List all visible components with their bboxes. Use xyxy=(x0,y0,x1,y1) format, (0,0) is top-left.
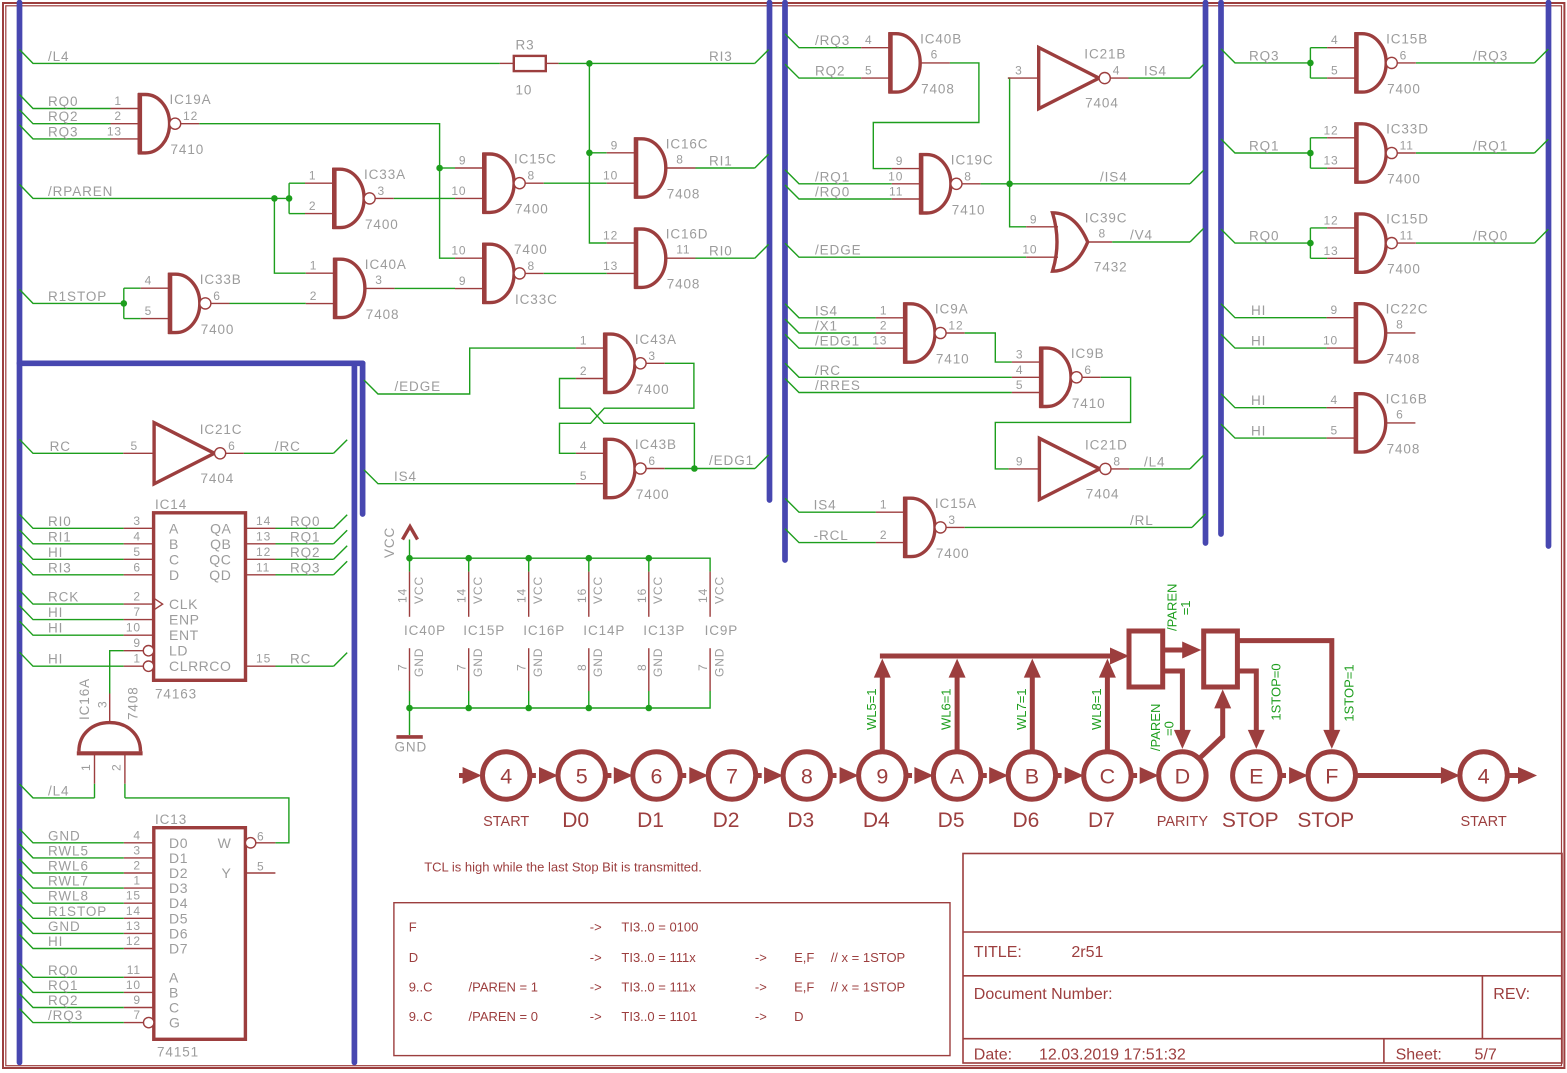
svg-text:GND: GND xyxy=(531,648,545,677)
and gate IC22C xyxy=(1323,301,1428,366)
svg-text:5: 5 xyxy=(576,764,588,788)
svg-text:1: 1 xyxy=(580,334,588,348)
svg-text:D0: D0 xyxy=(169,835,188,851)
IC IC14 74163 counter xyxy=(124,497,276,702)
svg-text:7: 7 xyxy=(396,663,410,671)
svg-text:REV:: REV: xyxy=(1493,986,1530,1003)
wire net RQ2 xyxy=(20,109,111,124)
label /PAREN=0 xyxy=(1148,704,1177,751)
svg-text:Sheet:: Sheet: xyxy=(1396,1047,1442,1064)
wire net RQ0 right xyxy=(1221,229,1310,244)
svg-text:4: 4 xyxy=(865,33,873,47)
wire net /RQ1 out xyxy=(1416,139,1535,154)
svg-text:PARITY: PARITY xyxy=(1157,814,1209,830)
svg-text:IC15D: IC15D xyxy=(1386,212,1429,227)
svg-text:/RL: /RL xyxy=(1130,513,1154,528)
svg-text:10: 10 xyxy=(603,169,618,183)
svg-text:3: 3 xyxy=(133,843,141,857)
wire net RQ1 right xyxy=(1221,139,1310,154)
svg-text:12: 12 xyxy=(256,545,271,559)
svg-text:2: 2 xyxy=(309,199,317,213)
wire net HI ic16b-1 xyxy=(1221,393,1327,408)
bus entry /RC xyxy=(334,440,348,454)
wire R1STOP fork to IC33B xyxy=(121,288,141,318)
wire net RC from IC14 xyxy=(276,652,334,667)
svg-text:1STOP=1: 1STOP=1 xyxy=(1341,664,1356,721)
svg-text:1: 1 xyxy=(114,94,122,108)
and gate IC16A (rotated) xyxy=(77,678,143,784)
svg-text:3: 3 xyxy=(1016,348,1024,362)
svg-text:CLR: CLR xyxy=(169,658,199,674)
svg-text:GND: GND xyxy=(712,648,726,677)
svg-text:->: -> xyxy=(590,1009,602,1024)
svg-text:RWL6: RWL6 xyxy=(48,859,89,874)
wire net /RPAREN xyxy=(20,184,290,202)
wire net RQ3 right xyxy=(1221,48,1310,63)
svg-text:->: -> xyxy=(755,950,767,965)
state transition arrow C xyxy=(1056,767,1084,784)
svg-text:2: 2 xyxy=(880,528,888,542)
svg-text:4: 4 xyxy=(1331,33,1339,47)
svg-text:/RRES: /RRES xyxy=(815,378,861,393)
bus left-block inner vertical short xyxy=(360,363,366,514)
svg-text:7408: 7408 xyxy=(667,277,701,292)
svg-text:HI: HI xyxy=(1251,303,1266,318)
svg-text:IC43A: IC43A xyxy=(635,332,677,347)
svg-text:7410: 7410 xyxy=(936,352,970,367)
svg-text:4: 4 xyxy=(1016,363,1024,377)
svg-text:TI3..0 = 111x: TI3..0 = 111x xyxy=(621,979,696,994)
svg-text:ENT: ENT xyxy=(169,627,199,643)
svg-text:15: 15 xyxy=(126,889,141,903)
svg-text:RQ2: RQ2 xyxy=(48,109,78,124)
svg-text:1: 1 xyxy=(79,763,93,771)
svg-text:IC40P: IC40P xyxy=(404,623,446,638)
svg-text:IC15A: IC15A xyxy=(935,496,977,511)
wire net /EDGE mid xyxy=(785,243,1026,258)
state entry arrow xyxy=(459,767,482,784)
svg-text:WL5=1: WL5=1 xyxy=(864,688,879,730)
svg-text:4: 4 xyxy=(133,529,141,543)
nand gate IC33C xyxy=(451,242,557,307)
svg-text:6: 6 xyxy=(228,439,236,453)
svg-text:E,F: E,F xyxy=(794,979,814,994)
state up arrow WL5=1 xyxy=(864,659,891,754)
wire IC33A out to IC15C xyxy=(394,197,455,199)
svg-text:9..C: 9..C xyxy=(409,979,433,994)
svg-text:9: 9 xyxy=(876,764,888,788)
svg-text:3: 3 xyxy=(133,514,141,528)
bus entry /L4 out xyxy=(1190,455,1204,469)
svg-text:D6: D6 xyxy=(1012,809,1039,832)
svg-text:6: 6 xyxy=(257,829,265,843)
svg-text:=0: =0 xyxy=(1162,721,1177,736)
wire net /L4 out xyxy=(1129,454,1190,469)
and gate IC40B xyxy=(861,31,962,96)
wire net /RQ0 out xyxy=(1416,229,1535,244)
wire net RQ1 to IC13 xyxy=(20,978,124,993)
label 1STOP=0 xyxy=(1269,663,1284,720)
inverter IC21D xyxy=(1009,437,1130,501)
svg-text:->: -> xyxy=(590,950,602,965)
svg-text:VCC: VCC xyxy=(412,576,426,604)
svg-text:IC33B: IC33B xyxy=(200,272,242,287)
notes box xyxy=(394,903,950,1056)
svg-text:74163: 74163 xyxy=(155,687,197,702)
svg-text:10: 10 xyxy=(126,621,141,635)
wire /IS4 branch up to IC21B xyxy=(1008,78,1010,184)
svg-text:3: 3 xyxy=(1015,64,1023,78)
bus entry RQ1 xyxy=(334,530,348,544)
svg-text:D1: D1 xyxy=(169,850,188,866)
svg-text:RQ1: RQ1 xyxy=(290,529,320,544)
svg-text:9: 9 xyxy=(1030,212,1038,226)
wire net IS4 out xyxy=(1129,64,1191,79)
svg-text:IC21B: IC21B xyxy=(1084,47,1126,62)
wire net RWL8 to IC13 xyxy=(20,889,124,904)
state node A xyxy=(933,752,980,832)
svg-text:2: 2 xyxy=(133,859,141,873)
state transition arrow F to 4 xyxy=(1356,767,1460,784)
svg-text:11: 11 xyxy=(889,185,903,199)
svg-text:9: 9 xyxy=(1016,454,1024,468)
wire net GND to IC13 xyxy=(20,828,124,843)
svg-text:D2: D2 xyxy=(713,809,740,832)
label /PAREN=1 xyxy=(1164,584,1193,631)
wire net IS4 low xyxy=(785,498,876,513)
wire /RPAREN to IC40A pin1 xyxy=(274,198,305,273)
wire net /EDGE left xyxy=(364,348,576,394)
wire IC16A pin2 drop xyxy=(124,784,126,798)
svg-text:/RQ3: /RQ3 xyxy=(815,33,850,48)
bus entry RC xyxy=(334,653,348,667)
state arrow box1 to D xyxy=(1163,671,1191,749)
wire net /EDG1 xyxy=(665,453,755,472)
svg-text:7404: 7404 xyxy=(201,471,235,486)
svg-text:RI1: RI1 xyxy=(709,154,733,169)
svg-text:RC: RC xyxy=(290,652,311,667)
IC IC13 74151 multiplexer xyxy=(124,812,276,1060)
wire IC16A out to IC14 LD xyxy=(110,651,124,694)
svg-text:D: D xyxy=(169,567,180,583)
svg-text:D4: D4 xyxy=(863,809,890,832)
svg-text:13: 13 xyxy=(872,334,887,348)
wire RQ3 fork xyxy=(1307,48,1327,78)
svg-text:7404: 7404 xyxy=(1085,96,1119,111)
svg-text:3: 3 xyxy=(375,273,383,287)
svg-text:D: D xyxy=(1175,764,1191,788)
state transition arrow A xyxy=(906,767,933,784)
svg-text:GND: GND xyxy=(48,828,81,843)
nand gate IC43B xyxy=(576,437,677,502)
svg-text:3: 3 xyxy=(948,513,956,527)
svg-text:12: 12 xyxy=(948,319,963,333)
svg-text:8: 8 xyxy=(801,764,813,788)
nand gate IC9B xyxy=(1012,346,1106,411)
svg-text:7400: 7400 xyxy=(515,202,549,217)
svg-text:5: 5 xyxy=(133,545,141,559)
svg-text:11: 11 xyxy=(1400,229,1414,243)
state transition arrow 5 xyxy=(530,767,558,784)
svg-text:WL8=1: WL8=1 xyxy=(1089,688,1104,730)
wire RQ1 fork xyxy=(1307,138,1327,168)
svg-text:TITLE:: TITLE: xyxy=(974,944,1022,961)
svg-text:STOP: STOP xyxy=(1222,809,1279,832)
power pins IC40P xyxy=(396,558,447,708)
svg-text:5: 5 xyxy=(1331,424,1339,438)
svg-text:RI3: RI3 xyxy=(48,560,72,575)
svg-text:LD: LD xyxy=(169,643,188,659)
svg-text:D7: D7 xyxy=(1088,809,1115,832)
svg-text:9: 9 xyxy=(459,154,467,168)
power symbol GND xyxy=(395,708,428,755)
wire net RWL7 to IC13 xyxy=(20,874,124,889)
svg-text:D0: D0 xyxy=(562,809,589,832)
svg-text:/RC: /RC xyxy=(275,439,301,454)
state node 5 xyxy=(558,752,605,832)
svg-text:B: B xyxy=(169,984,179,1000)
state node 7 xyxy=(708,752,755,832)
svg-text:HI: HI xyxy=(1251,334,1266,349)
svg-text:IC19C: IC19C xyxy=(951,152,994,167)
svg-text:5: 5 xyxy=(131,439,139,453)
svg-text:Date:: Date: xyxy=(974,1047,1012,1064)
svg-text:7400: 7400 xyxy=(936,546,970,561)
svg-text:D: D xyxy=(794,1009,803,1024)
state node E xyxy=(1222,752,1280,832)
state exit arrow xyxy=(1507,767,1537,784)
svg-text:A: A xyxy=(169,969,179,985)
nand gate IC33D xyxy=(1323,122,1428,187)
svg-text:IS4: IS4 xyxy=(814,498,837,513)
svg-text:IC33D: IC33D xyxy=(1386,122,1429,137)
wire RQ0 fork xyxy=(1307,228,1327,258)
wire net RQ0 from IC14 xyxy=(276,514,334,529)
svg-text:IC15B: IC15B xyxy=(1386,31,1428,46)
state transition arrow 8 xyxy=(756,767,783,784)
svg-text:11: 11 xyxy=(256,560,270,574)
svg-text:IC16P: IC16P xyxy=(523,623,565,638)
svg-text:D3: D3 xyxy=(169,880,188,896)
svg-text:7400: 7400 xyxy=(514,242,548,257)
svg-text:14: 14 xyxy=(126,904,141,918)
svg-text:VCC: VCC xyxy=(651,576,665,604)
wire net RCK to IC14 xyxy=(20,590,124,605)
svg-text:4: 4 xyxy=(1331,393,1339,407)
bus entry /RQ0 xyxy=(1535,229,1549,243)
svg-text:CLK: CLK xyxy=(169,596,198,612)
svg-text:IS4: IS4 xyxy=(815,303,838,318)
state arrow box1 to box2 xyxy=(1163,642,1202,659)
svg-text:IC19A: IC19A xyxy=(170,92,212,107)
svg-text:HI: HI xyxy=(48,605,63,620)
svg-text:/PAREN = 1: /PAREN = 1 xyxy=(469,979,538,994)
svg-text:4: 4 xyxy=(500,764,512,788)
svg-text:->: -> xyxy=(755,1009,767,1024)
svg-text:3: 3 xyxy=(378,184,386,198)
state up arrow WL6=1 xyxy=(939,659,966,754)
svg-text:RQ2: RQ2 xyxy=(48,993,78,1008)
svg-text:4: 4 xyxy=(133,828,141,842)
bus middle pair right xyxy=(782,3,788,561)
svg-text:11: 11 xyxy=(127,963,141,977)
svg-text:VCC: VCC xyxy=(591,576,605,604)
state transition arrow 9 xyxy=(831,767,859,784)
bus entry IS4 out xyxy=(1190,65,1204,79)
svg-text:/EDG1: /EDG1 xyxy=(709,453,754,468)
nand gate IC15C xyxy=(451,152,556,217)
svg-text:2: 2 xyxy=(880,319,888,333)
svg-text:R3: R3 xyxy=(516,37,535,52)
svg-text:12: 12 xyxy=(126,934,141,948)
wire net /RQ1 mid xyxy=(785,169,892,184)
svg-text:8: 8 xyxy=(528,169,536,183)
svg-text:RQ1: RQ1 xyxy=(1249,139,1279,154)
svg-text:RQ3: RQ3 xyxy=(1249,48,1279,63)
svg-text:->: -> xyxy=(590,979,602,994)
svg-text:D1: D1 xyxy=(637,809,664,832)
nand gate IC15D xyxy=(1323,212,1428,277)
state up arrow WL7=1 xyxy=(1014,659,1041,754)
svg-text:RC: RC xyxy=(50,439,71,454)
svg-text:11: 11 xyxy=(676,243,690,257)
svg-text:WL7=1: WL7=1 xyxy=(1014,688,1029,730)
svg-text:TI3..0 = 111x: TI3..0 = 111x xyxy=(621,950,696,965)
wire net /L4 top xyxy=(20,49,500,64)
wire net RQ1 from IC14 xyxy=(276,529,334,544)
svg-text:IC9B: IC9B xyxy=(1071,346,1105,361)
svg-text:IC9A: IC9A xyxy=(935,302,969,317)
svg-text:7400: 7400 xyxy=(636,382,670,397)
svg-text:QC: QC xyxy=(209,551,231,567)
svg-text:9: 9 xyxy=(133,636,141,650)
svg-text:13: 13 xyxy=(1323,154,1338,168)
svg-text:10: 10 xyxy=(516,83,533,98)
svg-text:A: A xyxy=(950,764,965,788)
power pins IC15P xyxy=(455,558,506,708)
svg-text:IS4: IS4 xyxy=(394,469,417,484)
svg-text:RI0: RI0 xyxy=(48,514,72,529)
svg-text:7: 7 xyxy=(515,663,529,671)
svg-text:IC16C: IC16C xyxy=(666,137,709,152)
state node 9 xyxy=(859,752,906,832)
svg-text:/V4: /V4 xyxy=(1130,228,1153,243)
wire net RI0 to IC14 xyxy=(20,514,124,529)
wire net IS4 mid xyxy=(785,303,876,318)
svg-text:74151: 74151 xyxy=(157,1045,199,1060)
svg-text:IC33C: IC33C xyxy=(515,292,558,307)
state node D xyxy=(1157,752,1209,830)
and gate IC16C xyxy=(603,137,708,202)
bus left vertical xyxy=(17,3,23,1063)
svg-text:10: 10 xyxy=(1022,243,1037,257)
bus left-block inner vertical long xyxy=(352,367,358,1063)
svg-text:8: 8 xyxy=(1099,227,1107,241)
svg-text:5: 5 xyxy=(580,469,588,483)
svg-text:14: 14 xyxy=(515,588,529,603)
svg-text:GND: GND xyxy=(651,648,665,677)
svg-text:-RCL: -RCL xyxy=(814,528,849,543)
bus entry /V4 xyxy=(1190,228,1204,242)
bus entry RI3 xyxy=(755,50,769,64)
wire RI3 branch to IC16C pin9 xyxy=(589,152,606,154)
svg-text:6: 6 xyxy=(1396,407,1404,421)
svg-text:2: 2 xyxy=(580,364,588,378)
svg-text:QD: QD xyxy=(209,567,231,583)
state rail to box1 xyxy=(880,648,1129,665)
svg-text:7410: 7410 xyxy=(171,142,205,157)
svg-text:5/7: 5/7 xyxy=(1475,1047,1497,1064)
svg-text:7408: 7408 xyxy=(366,307,400,322)
wire net RQ3 from IC14 xyxy=(276,560,334,575)
svg-text:12: 12 xyxy=(603,229,618,243)
nand gate IC33A xyxy=(305,167,406,232)
svg-text:IC9P: IC9P xyxy=(705,623,739,638)
power pins IC16P xyxy=(515,558,566,708)
nand gate IC33B xyxy=(141,272,242,337)
wire net /RC xyxy=(244,439,334,454)
svg-text:7432: 7432 xyxy=(1094,260,1128,275)
svg-text:IS4: IS4 xyxy=(1144,64,1167,79)
svg-text:IC43B: IC43B xyxy=(635,437,677,452)
svg-text:TI3..0 = 1101: TI3..0 = 1101 xyxy=(621,1009,697,1024)
svg-text:7400: 7400 xyxy=(201,322,235,337)
svg-text:6: 6 xyxy=(1084,363,1092,377)
svg-text:D: D xyxy=(409,950,418,965)
svg-text:2: 2 xyxy=(310,289,318,303)
state arrow box2 to E xyxy=(1237,671,1264,749)
svg-text:HI: HI xyxy=(48,934,63,949)
svg-text:QB: QB xyxy=(210,536,231,552)
wire IC19A out xyxy=(199,124,455,259)
svg-text:4: 4 xyxy=(580,439,588,453)
svg-text:8: 8 xyxy=(635,663,649,671)
svg-text:D6: D6 xyxy=(169,925,188,941)
svg-text:8: 8 xyxy=(1396,317,1404,331)
svg-text:GND: GND xyxy=(395,740,428,755)
svg-text:/RQ1: /RQ1 xyxy=(815,169,850,184)
state transition arrow F xyxy=(1280,767,1308,784)
svg-text:1: 1 xyxy=(310,259,318,273)
wire net /RL xyxy=(965,513,1192,528)
svg-text:GND: GND xyxy=(48,919,81,934)
svg-text:9: 9 xyxy=(1331,303,1339,317)
svg-text:14: 14 xyxy=(256,514,271,528)
bus right pair left xyxy=(1203,3,1209,544)
svg-text:RI3: RI3 xyxy=(709,49,733,64)
wire net -RCL xyxy=(785,528,876,543)
wire net RC xyxy=(20,439,124,454)
svg-text:8: 8 xyxy=(1113,454,1121,468)
svg-text:IC40A: IC40A xyxy=(365,257,407,272)
svg-text:STOP: STOP xyxy=(1297,809,1354,832)
bus entry RQ0 xyxy=(334,515,348,529)
svg-text:8: 8 xyxy=(575,663,589,671)
wire net RI3 xyxy=(559,49,755,67)
svg-text:7404: 7404 xyxy=(1086,486,1120,501)
svg-text:7400: 7400 xyxy=(1387,172,1421,187)
state arrow D to box2 xyxy=(1200,689,1231,757)
bus far right xyxy=(1546,3,1552,547)
svg-text:5: 5 xyxy=(1016,378,1024,392)
svg-text:13: 13 xyxy=(107,124,122,138)
svg-text:4: 4 xyxy=(1478,764,1490,788)
bus middle pair left xyxy=(767,3,773,501)
svg-text:IC21C: IC21C xyxy=(200,422,243,437)
and gate IC40A xyxy=(306,257,407,322)
wire IC33C out to IC16D xyxy=(544,272,607,274)
svg-text:HI: HI xyxy=(48,545,63,560)
